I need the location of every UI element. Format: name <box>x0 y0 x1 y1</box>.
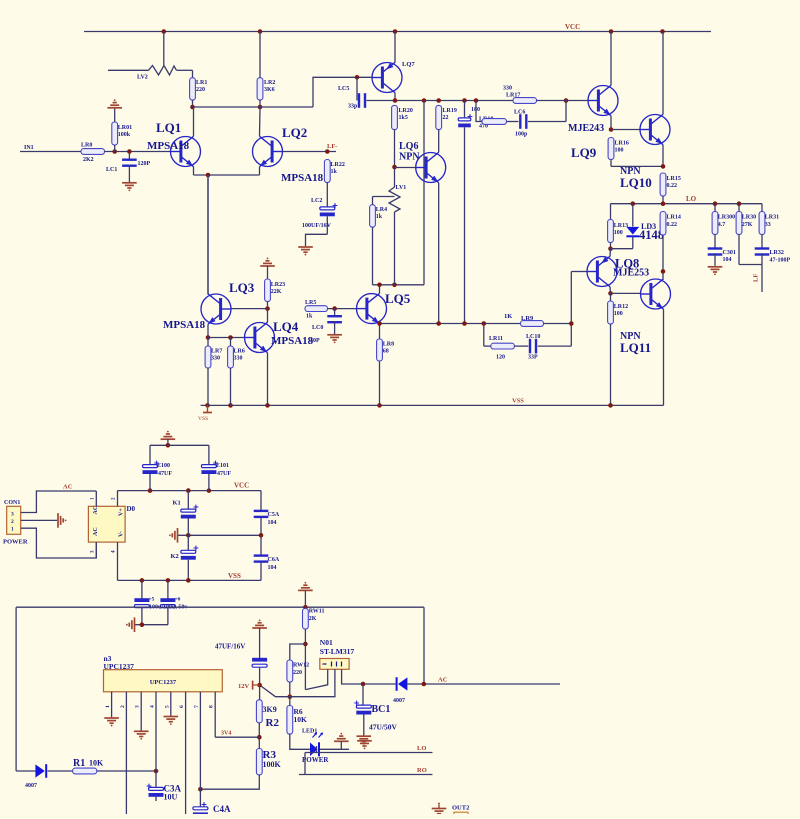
svg-text:120P: 120P <box>138 161 151 167</box>
svg-text:RW11: RW11 <box>309 609 325 615</box>
svg-text:V-: V- <box>119 531 125 537</box>
svg-text:LR19: LR19 <box>443 108 457 114</box>
svg-text:C5A: C5A <box>268 512 280 518</box>
svg-text:LR16: LR16 <box>615 141 629 147</box>
svg-text:D0: D0 <box>127 505 136 513</box>
svg-text:330: 330 <box>211 356 220 362</box>
svg-text:47U/50V: 47U/50V <box>369 723 398 732</box>
svg-text:LR20: LR20 <box>399 108 413 114</box>
svg-text:1k: 1k <box>331 169 338 175</box>
svg-text:LR01: LR01 <box>118 125 132 131</box>
svg-text:1: 1 <box>105 705 111 708</box>
svg-text:330: 330 <box>234 356 243 362</box>
svg-text:10K: 10K <box>294 715 308 724</box>
svg-text:2K2: 2K2 <box>83 157 94 163</box>
svg-text:UPC1237: UPC1237 <box>104 662 135 671</box>
svg-text:33P: 33P <box>528 355 538 361</box>
svg-text:LO: LO <box>686 195 697 203</box>
svg-text:MPSA18: MPSA18 <box>163 319 206 331</box>
svg-text:104: 104 <box>723 257 732 263</box>
svg-text:68: 68 <box>383 349 389 355</box>
svg-text:47-100P: 47-100P <box>770 258 791 264</box>
svg-text:10U: 10U <box>164 793 178 802</box>
svg-text:K1: K1 <box>173 500 181 507</box>
svg-text:C4A: C4A <box>213 804 231 814</box>
svg-text:47UF: 47UF <box>217 471 231 477</box>
svg-text:LV1: LV1 <box>396 185 407 191</box>
svg-text:LF: LF <box>753 274 760 282</box>
svg-text:47UF: 47UF <box>158 471 172 477</box>
svg-text:LR31: LR31 <box>765 215 779 221</box>
svg-text:100K: 100K <box>263 760 282 769</box>
svg-text:LQ5: LQ5 <box>385 291 411 306</box>
svg-text:UPC1237: UPC1237 <box>150 679 177 686</box>
svg-text:E100: E100 <box>157 463 170 469</box>
svg-text:LR32: LR32 <box>770 250 784 256</box>
svg-text:LQ6: LQ6 <box>399 141 418 152</box>
svg-text:100: 100 <box>614 311 623 317</box>
svg-text:LR11: LR11 <box>489 336 503 342</box>
svg-text:220: 220 <box>293 670 302 676</box>
svg-text:120: 120 <box>496 355 505 361</box>
svg-text:MJE243: MJE243 <box>568 123 604 134</box>
svg-text:LC2: LC2 <box>311 198 322 204</box>
svg-text:VSS: VSS <box>228 572 241 580</box>
svg-text:LV2: LV2 <box>137 75 148 81</box>
svg-text:LQ11: LQ11 <box>620 340 651 355</box>
svg-text:5: 5 <box>164 705 170 708</box>
svg-text:2K: 2K <box>309 616 317 622</box>
svg-text:LR13: LR13 <box>614 223 628 229</box>
svg-text:330: 330 <box>503 86 512 92</box>
svg-text:33p: 33p <box>348 104 358 110</box>
svg-text:10K: 10K <box>89 759 104 768</box>
svg-text:AC: AC <box>93 527 99 536</box>
svg-text:8: 8 <box>209 705 215 708</box>
svg-text:MPSA18: MPSA18 <box>271 335 314 347</box>
svg-text:C301: C301 <box>723 250 736 256</box>
svg-text:LR8: LR8 <box>383 342 394 348</box>
svg-text:RW12: RW12 <box>293 663 309 669</box>
svg-text:12V: 12V <box>238 683 250 690</box>
svg-text:220: 220 <box>196 87 205 93</box>
svg-text:POWER: POWER <box>302 756 329 764</box>
svg-text:LR15: LR15 <box>667 176 681 182</box>
svg-text:VSS: VSS <box>198 416 208 422</box>
svg-text:V+: V+ <box>119 508 125 516</box>
svg-text:4.7: 4.7 <box>718 222 726 228</box>
svg-text:3K6: 3K6 <box>264 87 275 93</box>
svg-text:OUT2: OUT2 <box>452 805 469 812</box>
svg-text:R2: R2 <box>266 717 280 729</box>
svg-text:LC1: LC1 <box>106 167 117 173</box>
svg-text:E101: E101 <box>216 463 229 469</box>
svg-text:100: 100 <box>615 148 624 154</box>
svg-text:30P: 30P <box>310 338 320 344</box>
svg-text:47UF/16V: 47UF/16V <box>215 643 245 651</box>
svg-text:4: 4 <box>150 705 156 708</box>
svg-text:6: 6 <box>179 705 185 708</box>
svg-text:MJE253: MJE253 <box>613 268 649 279</box>
svg-text:27K: 27K <box>742 222 753 228</box>
svg-text:104: 104 <box>268 565 277 571</box>
svg-text:LQ3: LQ3 <box>229 280 255 295</box>
svg-text:LR23: LR23 <box>271 282 285 288</box>
svg-text:LR12: LR12 <box>614 304 628 310</box>
svg-text:AC: AC <box>438 677 448 684</box>
svg-text:3: 3 <box>135 705 141 708</box>
svg-text:AC: AC <box>63 484 73 491</box>
svg-text:4007: 4007 <box>393 698 405 704</box>
svg-text:104: 104 <box>268 520 277 526</box>
svg-text:LR1: LR1 <box>196 80 207 86</box>
svg-text:C6A: C6A <box>268 557 280 563</box>
svg-text:LR2: LR2 <box>264 80 275 86</box>
svg-text:+5: +5 <box>149 597 155 603</box>
svg-text:100UF/16V: 100UF/16V <box>302 223 332 229</box>
svg-text:22: 22 <box>443 115 449 121</box>
svg-text:LR7: LR7 <box>211 349 222 355</box>
svg-text:LC5: LC5 <box>338 86 349 92</box>
svg-text:LR0: LR0 <box>81 143 92 149</box>
svg-text:0.22: 0.22 <box>667 183 678 189</box>
svg-text:100k: 100k <box>118 132 131 138</box>
svg-text:4007: 4007 <box>25 783 37 789</box>
svg-text:33: 33 <box>765 222 771 228</box>
svg-text:2: 2 <box>120 705 126 708</box>
svg-text:LQ9: LQ9 <box>571 145 597 160</box>
svg-text:AC: AC <box>93 506 99 515</box>
svg-text:3V4: 3V4 <box>221 731 231 737</box>
svg-text:CON1: CON1 <box>4 500 20 506</box>
svg-text:1k: 1k <box>376 214 383 220</box>
svg-text:LR300: LR300 <box>718 215 735 221</box>
svg-text:LR30: LR30 <box>742 215 756 221</box>
svg-text:LQ2: LQ2 <box>282 125 307 140</box>
svg-text:1: 1 <box>11 527 14 533</box>
svg-text:LR5: LR5 <box>305 300 316 306</box>
svg-text:MPSA18: MPSA18 <box>281 172 324 184</box>
svg-text:IN1: IN1 <box>24 145 34 151</box>
svg-text:1K: 1K <box>504 313 512 320</box>
svg-text:LC10: LC10 <box>526 334 540 340</box>
svg-text:LQ7: LQ7 <box>402 61 415 68</box>
svg-text:LO: LO <box>417 745 426 752</box>
svg-text:MPSA18: MPSA18 <box>147 140 190 152</box>
svg-text:LR4: LR4 <box>376 207 387 213</box>
svg-text:N01: N01 <box>320 638 333 647</box>
svg-text:3: 3 <box>11 511 14 517</box>
svg-text:0.22: 0.22 <box>667 222 678 228</box>
svg-text:22K: 22K <box>271 289 282 295</box>
svg-text:LC6: LC6 <box>514 110 525 116</box>
svg-text:NPN: NPN <box>399 152 420 163</box>
svg-text:100p: 100p <box>515 132 528 138</box>
svg-text:R1: R1 <box>73 758 85 769</box>
svg-text:K2: K2 <box>171 553 179 560</box>
svg-text:LC0: LC0 <box>312 325 323 331</box>
svg-text:2: 2 <box>11 519 14 525</box>
svg-text:VCC: VCC <box>565 23 580 31</box>
svg-text:LQ10: LQ10 <box>620 175 652 190</box>
svg-text:VCC: VCC <box>234 482 249 490</box>
svg-text:LQ4: LQ4 <box>273 319 299 334</box>
svg-text:1k: 1k <box>306 314 313 320</box>
svg-text:ST-LM317: ST-LM317 <box>320 647 355 656</box>
svg-text:LR22: LR22 <box>331 162 345 168</box>
svg-text:100: 100 <box>614 230 623 236</box>
svg-text:LR14: LR14 <box>667 215 681 221</box>
svg-text:LR6: LR6 <box>234 349 245 355</box>
svg-text:POWER: POWER <box>3 539 28 546</box>
svg-text:RO: RO <box>417 767 427 774</box>
svg-text:VSS: VSS <box>512 398 524 405</box>
svg-text:+6: +6 <box>175 597 181 603</box>
svg-text:LQ1: LQ1 <box>156 120 181 135</box>
svg-text:1k5: 1k5 <box>399 115 408 121</box>
svg-text:LF-: LF- <box>327 143 337 150</box>
svg-text:7: 7 <box>194 705 200 708</box>
svg-text:LED1: LED1 <box>302 729 317 735</box>
svg-text:3K9: 3K9 <box>263 705 277 714</box>
svg-text:BC1: BC1 <box>372 704 391 715</box>
